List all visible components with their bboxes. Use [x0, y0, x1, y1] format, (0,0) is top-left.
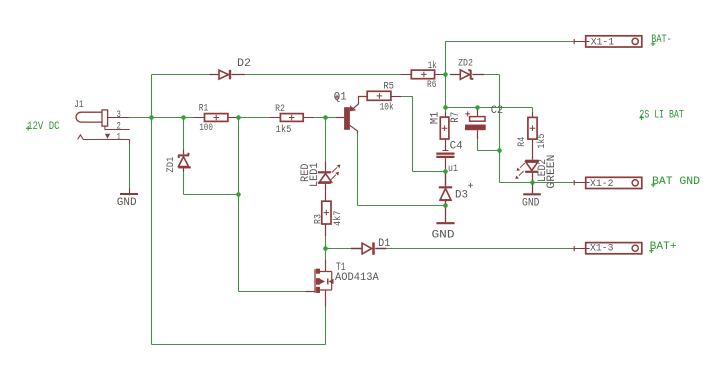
svg-text:R2: R2 [275, 104, 285, 115]
node u1 [443, 169, 448, 174]
cross D3 origin [468, 183, 473, 188]
svg-text:100: 100 [199, 123, 213, 134]
resistor R2 [269, 114, 314, 122]
svg-text:ZD2: ZD2 [458, 59, 473, 70]
wire gate rail y291.5 [239, 291, 306, 293]
svg-text:R7: R7 [450, 112, 462, 123]
ground GND under D3 [436, 206, 454, 224]
svg-text:ZD1: ZD1 [166, 157, 177, 173]
resistor R4 [528, 112, 537, 159]
svg-text:R1: R1 [199, 103, 208, 114]
resistor R3 [322, 201, 331, 236]
wire D1 rail to X1-3 [327, 248, 574, 250]
wire bottom rail y344.5 [152, 344, 326, 346]
node LED2 bottom [530, 180, 535, 185]
cross BAT- origin [651, 42, 656, 47]
ground GND under LED2 [523, 193, 541, 195]
resistor R5 [367, 91, 401, 100]
svg-text:u1: u1 [448, 164, 458, 175]
wire R6 junction column x445.5 [445, 42, 447, 113]
svg-text:X1-3: X1-3 [590, 244, 614, 255]
connector J1 barrel jack [76, 110, 130, 144]
node main rail / ZD1 [181, 115, 186, 120]
svg-text:M1: M1 [429, 111, 441, 124]
connector X1-2 [574, 177, 642, 188]
svg-text:GND: GND [432, 229, 455, 241]
node M1 top [443, 105, 448, 110]
node main rail / left column [149, 115, 154, 120]
resistor M1 R7 [440, 112, 449, 150]
wire C4 to u1 node [445, 169, 447, 172]
wire gate column x238.5 [238, 118, 240, 292]
wire ZD1 bottom to gate column [184, 172, 239, 194]
J1 pin 3 [108, 117, 129, 119]
connector X1-3 [574, 243, 642, 254]
zener diode ZD1 [178, 149, 191, 172]
cross 2S LI BAT origin [639, 116, 644, 121]
svg-text:3: 3 [117, 110, 121, 121]
transistor Q1 [336, 97, 367, 134]
cross Q1 origin [335, 95, 340, 100]
zener diode ZD2 [450, 70, 484, 80]
J1 switch arrow [105, 134, 110, 139]
svg-text:J1: J1 [74, 100, 84, 111]
svg-text:GND: GND [522, 197, 540, 209]
svg-text:1k: 1k [428, 60, 437, 72]
svg-text:R3: R3 [314, 214, 325, 224]
diode D3 [439, 172, 452, 206]
wire top rail to X1-1 [446, 41, 574, 43]
svg-text:BAT+: BAT+ [650, 241, 677, 253]
svg-text:BAT GND: BAT GND [652, 176, 700, 188]
svg-text:D1: D1 [378, 238, 391, 250]
node C2 top [475, 105, 480, 110]
svg-text:R4: R4 [517, 137, 528, 147]
svg-text:2: 2 [117, 122, 121, 133]
wire mid rail y107.5 to R4 column [446, 108, 533, 113]
led LED2 GREEN [519, 161, 539, 194]
ground GND under J1 [120, 188, 138, 195]
svg-text:D2: D2 [237, 58, 251, 70]
wire ZD2 column down [499, 75, 501, 183]
diode D1 [351, 242, 387, 254]
connector X1-1 [574, 36, 642, 47]
svg-text:GREEN: GREEN [546, 155, 558, 189]
svg-text:X1-1: X1-1 [591, 38, 615, 49]
svg-text:1k5: 1k5 [536, 134, 548, 149]
resistor R1 [193, 114, 238, 122]
node main rail / gate column [236, 115, 241, 120]
svg-text:R6: R6 [427, 80, 436, 91]
svg-text:C2: C2 [491, 105, 503, 117]
svg-text:12V DC: 12V DC [27, 121, 60, 133]
node C2 bottom / ZD2 column [497, 148, 502, 153]
wire D2/R6 rail y74.5 [152, 74, 500, 76]
wire ZD1 top column x183.5 [183, 118, 185, 150]
led LED1 RED [318, 162, 337, 202]
node main rail / LED1 column [323, 115, 328, 120]
svg-text:AOD413A: AOD413A [335, 272, 379, 284]
wire LED1/T1 column x325.5 [325, 118, 327, 345]
wire LED2 bottom rail to X1-2 [500, 182, 574, 184]
svg-text:X1-2: X1-2 [590, 179, 614, 190]
svg-text:10k: 10k [380, 101, 394, 113]
diode D2 [209, 70, 245, 79]
svg-text:1k5: 1k5 [276, 124, 292, 136]
cross 12V DC origin [26, 126, 31, 131]
wire J1 pin1 to GND [129, 144, 131, 189]
resistor R6 [400, 70, 445, 79]
svg-text:D3: D3 [455, 190, 468, 202]
svg-text:2S LI BAT: 2S LI BAT [639, 110, 684, 122]
cross BAT GND origin [651, 183, 656, 188]
capacitor C4 [436, 151, 454, 169]
node R3 / D1 / T1 drain [323, 246, 328, 251]
wire R5 right to u1 corner [401, 96, 446, 172]
node R6 / ZD2 / top rail [443, 72, 448, 77]
wire Q1 emitter to D3 bottom [358, 133, 446, 206]
svg-text:LED1: LED1 [309, 162, 321, 187]
node ZD1 bottom / gate column [236, 192, 241, 197]
wire C2 bottom corner to ZD2 column [478, 139, 500, 151]
svg-text:1: 1 [117, 133, 121, 144]
svg-text:GND: GND [117, 197, 137, 209]
wire left column x151.5 [151, 75, 153, 345]
wire main 12V rail y117.5 [129, 117, 336, 119]
svg-text:C4: C4 [450, 141, 463, 153]
node D3 bottom [443, 203, 448, 208]
svg-text:R5: R5 [383, 81, 394, 92]
svg-text:4k7: 4k7 [332, 211, 344, 227]
cross BAT+ origin [649, 249, 654, 254]
capacitor C2 polarized [465, 108, 485, 140]
mosfet T1 AOD413A [306, 260, 332, 307]
